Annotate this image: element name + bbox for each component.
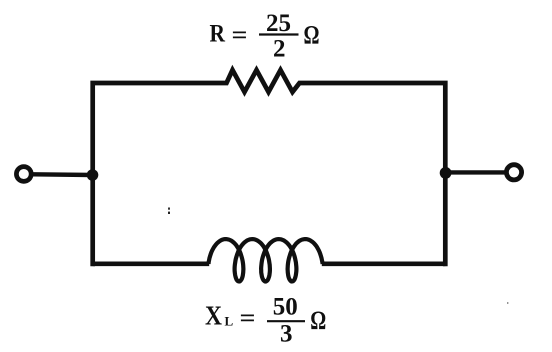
svg-text:3: 3 <box>280 320 293 347</box>
svg-text:=: = <box>232 22 248 49</box>
svg-text:X: X <box>205 300 222 330</box>
svg-text:Ω: Ω <box>310 305 326 335</box>
svg-text:R: R <box>210 21 226 48</box>
svg-text:25: 25 <box>266 10 291 37</box>
svg-text:Ω: Ω <box>304 19 320 49</box>
svg-text:2: 2 <box>273 35 286 62</box>
svg-text:50: 50 <box>273 294 298 321</box>
svg-text:L: L <box>225 314 234 329</box>
svg-text:=: = <box>240 305 256 332</box>
